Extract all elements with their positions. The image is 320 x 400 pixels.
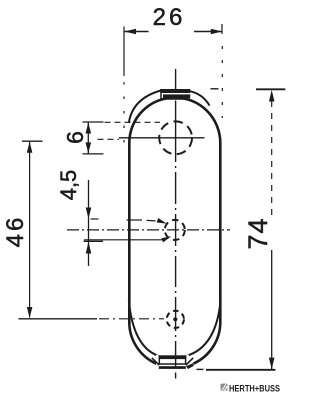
hole H3 bottom (dashed circle) xyxy=(167,311,184,328)
svg-text:26: 26 xyxy=(153,4,186,31)
hole H1 horizontal centerline xyxy=(119,137,205,139)
svg-text:4,5: 4,5 xyxy=(56,170,81,201)
leader to hole H2 top edge with arrow xyxy=(127,218,167,224)
hole H1 top (dashed circle) xyxy=(159,121,192,154)
top flap arc right xyxy=(190,91,210,105)
dimension 46 top tick xyxy=(22,140,43,142)
hole H2 horizontal centerline (dash-dot) xyxy=(67,229,230,231)
leader to hole H2 bottom edge with arrow xyxy=(84,236,171,242)
dimension line 26 right segment with arrow xyxy=(194,29,222,35)
bracket outline bottom arc xyxy=(129,322,156,364)
svg-text:6: 6 xyxy=(62,131,88,144)
bracket outline left edge xyxy=(128,142,131,323)
bracket outline right edge xyxy=(219,142,222,323)
dimension 6 up arrow xyxy=(86,123,92,134)
svg-text:HERTH+BUSS: HERTH+BUSS xyxy=(229,383,280,394)
dimension 46 down arrow xyxy=(27,307,33,318)
bottom tab T2 xyxy=(152,355,194,369)
dimension 4,5 up arrow (below hole bottom edge) xyxy=(86,242,92,254)
extension line 74 bottom dash xyxy=(197,368,204,370)
hole H2 middle (dashed circle) xyxy=(165,220,185,240)
dimension 74 down arrow xyxy=(269,358,275,370)
dimension 4,5 vertical line xyxy=(88,180,90,266)
svg-text:46: 46 xyxy=(2,215,29,248)
dimension line 26 left segment with arrow xyxy=(125,29,149,35)
extension line 26 left (dashed) xyxy=(123,27,125,77)
vertical centerline of part xyxy=(175,69,177,90)
dimension 74 line upper (dashed) xyxy=(271,101,273,216)
dimension 46 up arrow xyxy=(27,142,33,153)
dimension 46 vertical line xyxy=(29,142,31,318)
leader to hole H1 top edge (dashed) xyxy=(105,121,161,123)
dimension 74 up arrow xyxy=(269,90,275,102)
dimension 4,5 top dash xyxy=(91,218,99,220)
dimension 6 vertical line xyxy=(87,122,89,154)
svg-text:74: 74 xyxy=(243,217,273,249)
hole H3 centerline extension left xyxy=(19,318,98,320)
hole H3 centerline dash-dot to circle xyxy=(99,318,164,320)
dimension 74 line lower xyxy=(271,250,273,369)
top tab T1 xyxy=(160,89,190,99)
dimension 6 down arrow xyxy=(86,142,92,153)
extension line 74 top xyxy=(256,88,285,90)
bottom flap arc left xyxy=(129,300,159,356)
bottom flap arc right xyxy=(186,300,220,356)
dimension 4,5 bottom tick xyxy=(84,240,104,242)
extension line 74 bottom xyxy=(206,369,276,371)
dimension 4,5 down arrow (above hole top edge) xyxy=(86,208,92,219)
top flap arc left xyxy=(129,91,161,124)
bracket outline top arc xyxy=(129,98,220,143)
logo icon xyxy=(221,384,228,391)
dimension 6 bottom tick xyxy=(83,153,104,155)
hole H3 center dot xyxy=(173,317,177,321)
extension line 26 right (dashed) xyxy=(221,24,223,34)
extension line 74 top dash xyxy=(211,88,219,90)
leader to hole H1 center (dashed) xyxy=(98,138,120,140)
dimension 6 top tick xyxy=(83,121,104,123)
